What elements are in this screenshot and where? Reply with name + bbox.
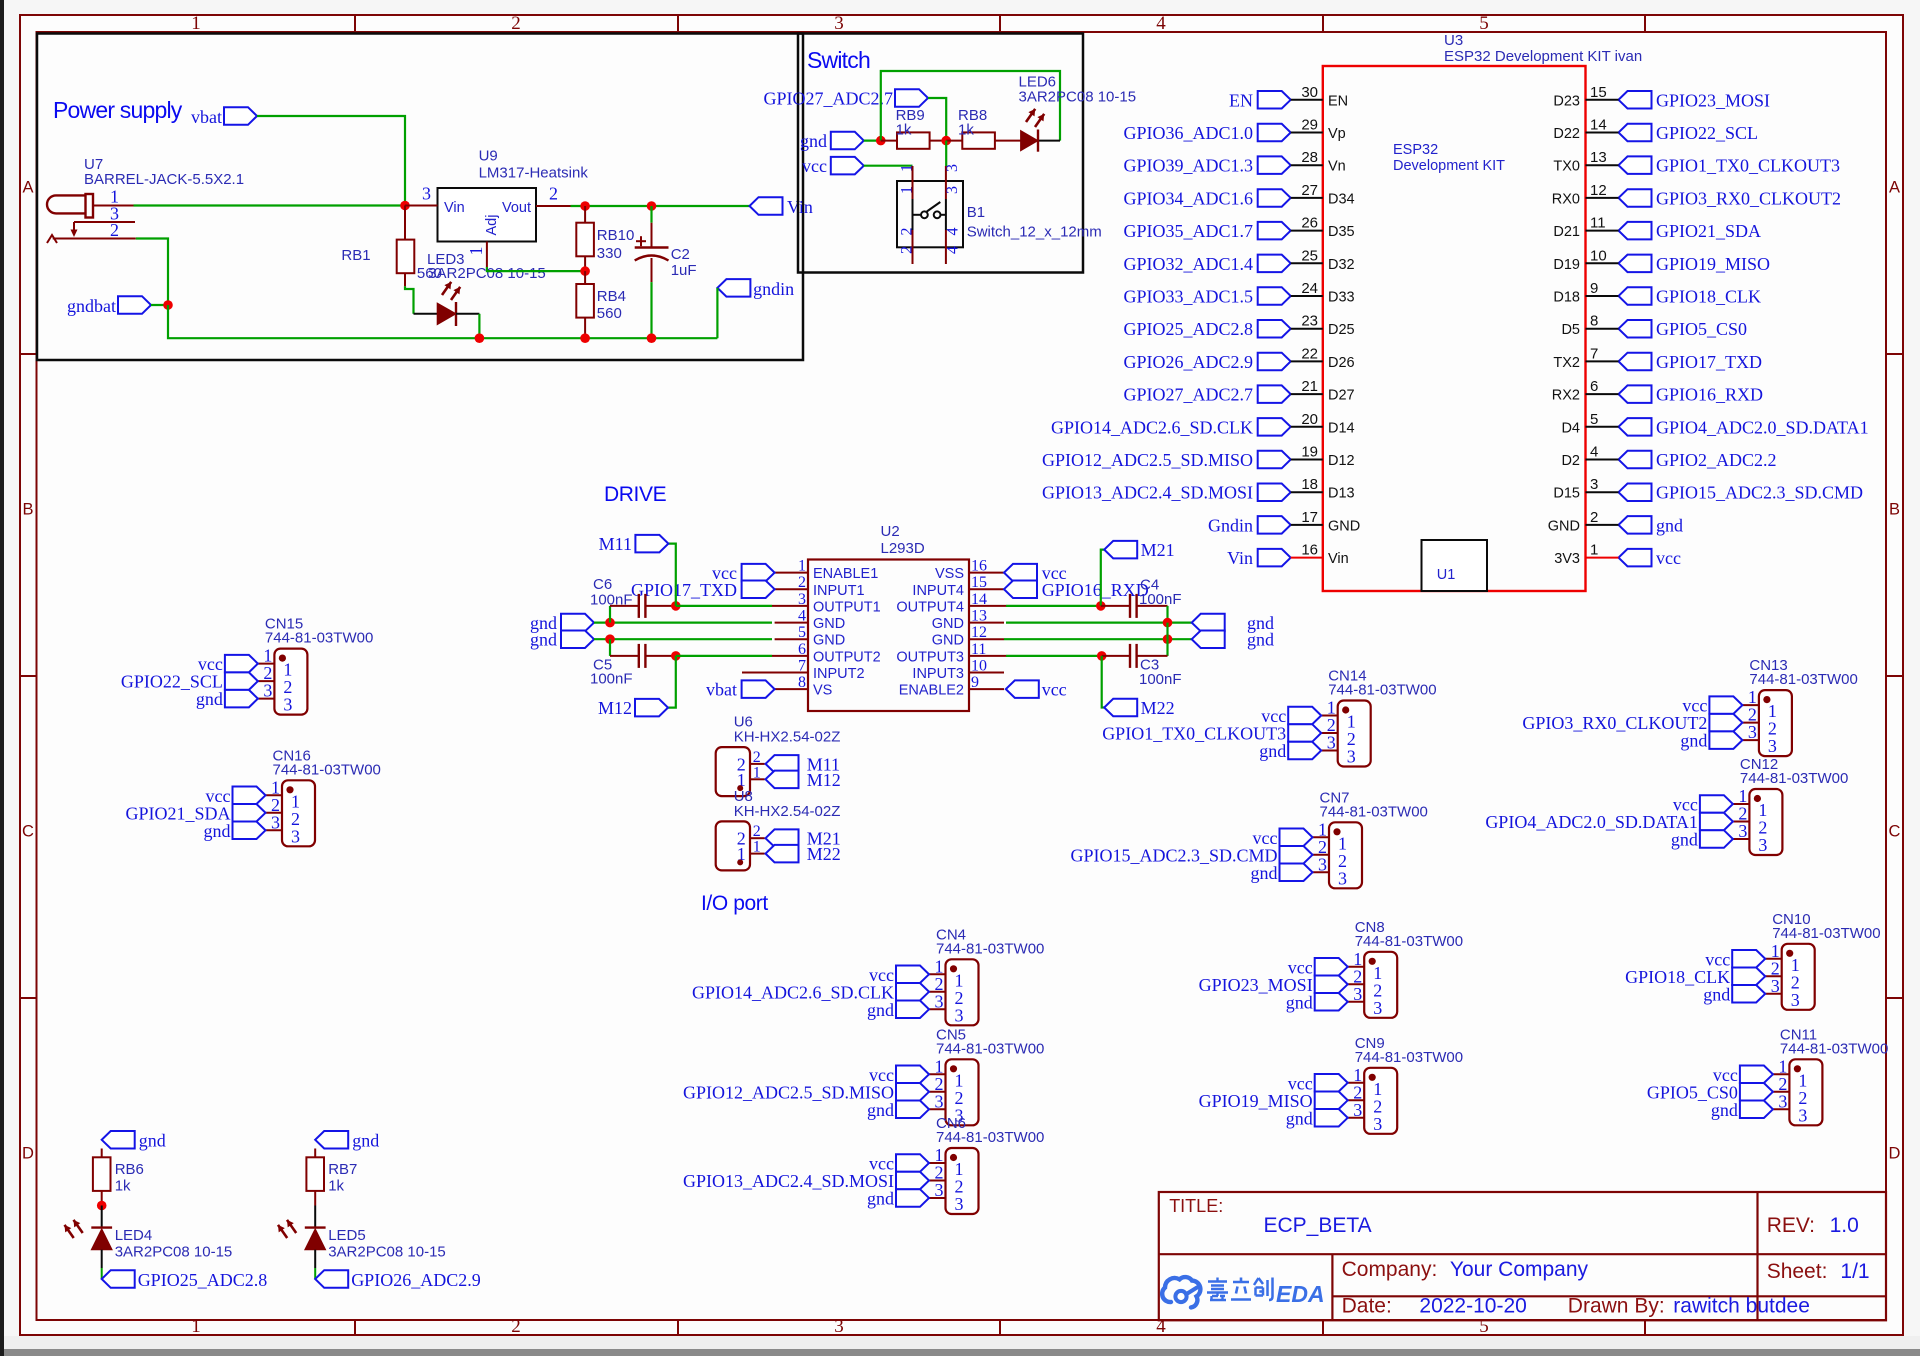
junction OUTPUT3/M22 bbox=[1097, 651, 1107, 661]
svg-text:GPIO4_ADC2.0_SD.DATA1: GPIO4_ADC2.0_SD.DATA1 bbox=[1485, 812, 1698, 832]
svg-text:GPIO15_ADC2.3_SD.CMD: GPIO15_ADC2.3_SD.CMD bbox=[1656, 483, 1863, 503]
net flag gnd (CN5) bbox=[896, 1101, 929, 1119]
svg-text:Switch: Switch bbox=[807, 47, 870, 73]
wire LED4 to flag bbox=[101, 1250, 103, 1268]
wire RB6 to LED4 bbox=[101, 1206, 103, 1228]
svg-text:16: 16 bbox=[1301, 542, 1318, 559]
svg-text:744-81-03TW00: 744-81-03TW00 bbox=[1749, 671, 1857, 688]
svg-text:1: 1 bbox=[1590, 542, 1598, 559]
svg-text:gnd: gnd bbox=[1251, 863, 1278, 883]
svg-text:6: 6 bbox=[1590, 378, 1598, 395]
svg-text:D: D bbox=[1889, 1145, 1901, 1163]
capacitor C5 bbox=[610, 655, 639, 657]
U6 pin 1 bbox=[750, 778, 765, 780]
svg-text:3: 3 bbox=[834, 1316, 844, 1337]
junction C5/M12 bbox=[671, 651, 681, 661]
svg-text:RB6: RB6 bbox=[115, 1161, 144, 1178]
net flag gnd (CN14) bbox=[1288, 742, 1321, 759]
junction RB10/RB4 bbox=[580, 266, 590, 276]
svg-text:D27: D27 bbox=[1328, 388, 1355, 404]
svg-text:3: 3 bbox=[935, 1091, 944, 1111]
U3 pin 30 (EN) left bbox=[1258, 91, 1291, 109]
CN6 pin 1 bbox=[929, 1162, 946, 1164]
svg-text:1: 1 bbox=[466, 247, 486, 256]
net flag GPIO27_ADC2.7 bbox=[895, 89, 928, 107]
U3 pin 6 (RX2) right bbox=[1619, 385, 1652, 403]
junction OUTPUT4/M21 bbox=[1096, 601, 1106, 611]
wire gnd to RB9 bbox=[864, 140, 881, 142]
svg-text:12: 12 bbox=[1590, 182, 1607, 199]
svg-text:TITLE:: TITLE: bbox=[1169, 1196, 1223, 1216]
CN5 pin 2 bbox=[929, 1091, 946, 1093]
svg-text:26: 26 bbox=[1301, 215, 1318, 232]
svg-text:TX2: TX2 bbox=[1553, 355, 1580, 371]
wire jack pin2 to gndbat bbox=[136, 239, 168, 306]
svg-text:I/O port: I/O port bbox=[701, 892, 768, 915]
svg-text:3: 3 bbox=[944, 164, 961, 172]
svg-text:27: 27 bbox=[1301, 182, 1318, 199]
svg-text:A: A bbox=[1889, 179, 1900, 197]
svg-text:3: 3 bbox=[944, 186, 961, 194]
svg-text:D21: D21 bbox=[1553, 224, 1580, 240]
svg-text:744-81-03TW00: 744-81-03TW00 bbox=[1320, 803, 1428, 820]
CN15 pin 3 bbox=[258, 698, 275, 700]
junction C6/M11 bbox=[671, 601, 681, 611]
CN14 pin 1 bbox=[1321, 715, 1338, 717]
svg-text:3: 3 bbox=[1778, 1091, 1787, 1111]
net flag gnd (CN9) bbox=[1315, 1109, 1348, 1127]
svg-text:19: 19 bbox=[1301, 444, 1318, 461]
svg-text:D14: D14 bbox=[1328, 420, 1355, 436]
svg-text:ESP32 Development KIT ivan: ESP32 Development KIT ivan bbox=[1444, 48, 1642, 65]
svg-text:3AR2PC08 10-15: 3AR2PC08 10-15 bbox=[1019, 88, 1137, 105]
svg-text:13: 13 bbox=[1590, 149, 1607, 166]
junction LED3/bus bbox=[475, 333, 485, 343]
wire gnd13 to gnd12 leg bbox=[1166, 623, 1168, 640]
svg-text:Vp: Vp bbox=[1328, 126, 1346, 142]
CN15 pin 2 bbox=[258, 680, 275, 682]
U3 pin 15 (D23) right bbox=[1619, 91, 1652, 109]
junction gnd/RB9 bbox=[876, 136, 886, 146]
svg-text:3AR2PC08 10-15: 3AR2PC08 10-15 bbox=[328, 1244, 446, 1261]
U3 pin 11 (D21) right bbox=[1619, 222, 1652, 240]
svg-text:vbat: vbat bbox=[191, 107, 222, 127]
svg-text:RB1: RB1 bbox=[341, 247, 370, 264]
svg-text:GND: GND bbox=[932, 616, 964, 632]
U2 pin stubs right bbox=[969, 573, 1006, 690]
svg-text:gnd: gnd bbox=[530, 630, 557, 650]
svg-text:ENABLE1: ENABLE1 bbox=[813, 566, 878, 582]
svg-text:18: 18 bbox=[1301, 476, 1318, 493]
svg-text:GPIO5_CS0: GPIO5_CS0 bbox=[1656, 319, 1747, 339]
U3 pin 29 (Vp) left bbox=[1258, 124, 1291, 141]
svg-text:GPIO14_ADC2.6_SD.CLK: GPIO14_ADC2.6_SD.CLK bbox=[692, 982, 894, 1002]
U2 pin names and numbers bbox=[798, 558, 987, 699]
svg-text:7: 7 bbox=[1590, 345, 1598, 362]
net flag M22 bbox=[1104, 699, 1137, 716]
switch B1 bbox=[897, 181, 963, 247]
svg-text:KH-HX2.54-02Z: KH-HX2.54-02Z bbox=[734, 729, 841, 746]
svg-text:28: 28 bbox=[1301, 149, 1318, 166]
frame column ticks top bbox=[355, 15, 1645, 32]
wire GPIO27 to B1 pin3 bbox=[945, 141, 947, 166]
wire RB1 to LED3 bbox=[405, 286, 414, 314]
svg-text:EN: EN bbox=[1229, 90, 1253, 110]
svg-text:GPIO3_RX0_CLKOUT2: GPIO3_RX0_CLKOUT2 bbox=[1656, 188, 1841, 208]
svg-text:2: 2 bbox=[899, 246, 916, 254]
svg-text:gnd: gnd bbox=[1703, 984, 1730, 1004]
svg-text:OUTPUT4: OUTPUT4 bbox=[896, 599, 964, 615]
wire OUTPUT3 bbox=[1006, 655, 1102, 657]
CN4 pin 2 bbox=[929, 991, 946, 993]
svg-text:GPIO25_ADC2.8: GPIO25_ADC2.8 bbox=[1123, 319, 1253, 339]
svg-text:1: 1 bbox=[899, 186, 916, 194]
svg-text:LED4: LED4 bbox=[115, 1227, 153, 1244]
svg-text:GPIO18_CLK: GPIO18_CLK bbox=[1656, 287, 1761, 307]
svg-text:GPIO1_TX0_CLKOUT3: GPIO1_TX0_CLKOUT3 bbox=[1656, 156, 1840, 176]
resistor RB1 bbox=[404, 206, 406, 240]
wire OUTPUT2 bbox=[676, 655, 772, 657]
wire LED5 to flag bbox=[314, 1250, 316, 1268]
net flag vcc (CN9) bbox=[1315, 1074, 1348, 1092]
U8 pin 1 bbox=[750, 853, 765, 855]
svg-text:C6: C6 bbox=[593, 576, 612, 593]
svg-text:vcc: vcc bbox=[802, 156, 827, 176]
svg-text:744-81-03TW00: 744-81-03TW00 bbox=[273, 761, 381, 778]
svg-text:9: 9 bbox=[1590, 280, 1598, 297]
U9 pin 3 bbox=[405, 205, 438, 207]
U3 pin 25 (D32) left bbox=[1258, 255, 1291, 273]
ESP32 module U3 box bbox=[1323, 66, 1586, 591]
net flag gnd (CN4) bbox=[896, 1001, 929, 1019]
net flag vcc (CN5) bbox=[896, 1066, 929, 1084]
svg-text:U3: U3 bbox=[1444, 32, 1463, 49]
junction gnd13 bbox=[1163, 618, 1173, 628]
svg-text:LM317-Heatsink: LM317-Heatsink bbox=[479, 164, 589, 181]
U9 pin 1 (Adj) bbox=[486, 242, 488, 268]
svg-text:gndbat: gndbat bbox=[67, 296, 116, 316]
net flag GPIO22_SCL (CN15) bbox=[225, 672, 258, 690]
resistor RB9 bbox=[897, 132, 930, 148]
wire Vout net bbox=[571, 205, 750, 207]
svg-text:3: 3 bbox=[1798, 1105, 1807, 1125]
net flag GPIO18_CLK (CN10) bbox=[1732, 968, 1765, 986]
wire C4 to gnd bbox=[1166, 606, 1168, 623]
svg-text:D4: D4 bbox=[1561, 420, 1580, 436]
U3 pin 16 (Vin) left bbox=[1258, 549, 1291, 567]
U7 pin 3 bbox=[74, 221, 135, 223]
svg-text:Gndin: Gndin bbox=[1208, 515, 1253, 535]
svg-text:744-81-03TW00: 744-81-03TW00 bbox=[1328, 682, 1436, 699]
svg-text:GND: GND bbox=[813, 633, 845, 649]
svg-text:GPIO22_SCL: GPIO22_SCL bbox=[1656, 123, 1758, 143]
U3 pin 21 (D27) left bbox=[1258, 385, 1291, 403]
svg-text:25: 25 bbox=[1301, 247, 1318, 264]
svg-text:INPUT2: INPUT2 bbox=[813, 666, 865, 682]
resistor RB10 bbox=[584, 206, 586, 223]
svg-text:D22: D22 bbox=[1553, 126, 1580, 142]
svg-text:100nF: 100nF bbox=[1139, 671, 1182, 688]
wire GND pin13 bbox=[1006, 621, 1192, 623]
svg-text:1uF: 1uF bbox=[671, 262, 697, 279]
U3 pin 22 (D26) left bbox=[1258, 353, 1291, 371]
wire vbat net bbox=[257, 116, 405, 206]
driver U2 L293D box bbox=[808, 560, 969, 712]
svg-text:Vin: Vin bbox=[787, 197, 813, 217]
net flag vcc (CN11) bbox=[1740, 1066, 1773, 1084]
svg-text:GPIO4_ADC2.0_SD.DATA1: GPIO4_ADC2.0_SD.DATA1 bbox=[1656, 417, 1869, 437]
wire C5 left leg bbox=[609, 639, 611, 656]
net flag M11 bbox=[766, 755, 799, 773]
svg-text:1k: 1k bbox=[328, 1178, 344, 1195]
net flag gnd (U2 pin13) bbox=[1192, 614, 1225, 632]
EasyEDA logo bbox=[1162, 1277, 1324, 1307]
CN13 pin 1 bbox=[1742, 704, 1759, 706]
svg-text:D26: D26 bbox=[1328, 355, 1355, 371]
svg-text:3: 3 bbox=[1327, 733, 1336, 753]
svg-text:3: 3 bbox=[291, 826, 300, 846]
U3 pin 12 (RX0) right bbox=[1619, 189, 1652, 207]
svg-text:1: 1 bbox=[191, 13, 201, 34]
svg-text:GPIO13_ADC2.4_SD.MOSI: GPIO13_ADC2.4_SD.MOSI bbox=[1042, 483, 1253, 503]
net flag gnd (CN6) bbox=[896, 1189, 929, 1207]
svg-text:3: 3 bbox=[1791, 990, 1800, 1010]
svg-text:A: A bbox=[22, 179, 33, 197]
svg-text:23: 23 bbox=[1301, 313, 1318, 330]
svg-text:gnd: gnd bbox=[204, 821, 231, 841]
U7 pin 2 bbox=[53, 238, 136, 240]
net flag gnd (CN13) bbox=[1709, 731, 1742, 749]
CN7 pin 3 bbox=[1313, 871, 1330, 873]
LED6 bbox=[1021, 131, 1038, 151]
net flag M12 bbox=[766, 771, 799, 789]
svg-text:OUTPUT2: OUTPUT2 bbox=[813, 649, 881, 665]
svg-text:M11: M11 bbox=[599, 534, 632, 554]
svg-text:3: 3 bbox=[422, 184, 431, 204]
junction gnd/C5 bbox=[605, 634, 615, 644]
junction RB6/LED4 bbox=[97, 1201, 107, 1211]
Switch section box bbox=[798, 34, 1083, 273]
svg-text:3: 3 bbox=[1748, 722, 1757, 742]
svg-text:3AR2PC08 10-15: 3AR2PC08 10-15 bbox=[115, 1244, 233, 1261]
svg-text:gnd: gnd bbox=[1680, 731, 1707, 751]
svg-text:INPUT3: INPUT3 bbox=[912, 666, 964, 682]
net flag GPIO12_ADC2.5_SD.MISO (CN5) bbox=[896, 1083, 929, 1101]
svg-text:1/1: 1/1 bbox=[1840, 1260, 1869, 1283]
svg-text:DRIVE: DRIVE bbox=[604, 483, 667, 506]
U3 pin 9 (D18) right bbox=[1619, 287, 1652, 305]
svg-text:3: 3 bbox=[1353, 984, 1362, 1004]
svg-text:D35: D35 bbox=[1328, 224, 1355, 240]
CN5 pin 1 bbox=[929, 1073, 946, 1075]
svg-text:B: B bbox=[22, 501, 33, 519]
net flag vcc (U2 pin16) bbox=[1004, 564, 1037, 582]
svg-text:gnd: gnd bbox=[867, 1000, 894, 1020]
capacitor C6 bbox=[610, 605, 639, 607]
svg-text:INPUT4: INPUT4 bbox=[912, 583, 964, 599]
svg-text:744-81-03TW00: 744-81-03TW00 bbox=[1772, 925, 1880, 942]
U9 pin 2 bbox=[536, 205, 571, 207]
net flag GPIO21_SDA (CN16) bbox=[233, 804, 266, 822]
svg-text:vcc: vcc bbox=[1042, 680, 1067, 700]
CN4 pin 3 bbox=[929, 1008, 946, 1010]
svg-text:3: 3 bbox=[935, 1180, 944, 1200]
net flag GPIO23_MOSI (CN8) bbox=[1315, 976, 1348, 994]
net flag vcc (CN10) bbox=[1732, 950, 1765, 968]
CN16 pin 3 bbox=[266, 829, 283, 831]
wire M12 bbox=[668, 656, 676, 708]
svg-text:GPIO34_ADC1.6: GPIO34_ADC1.6 bbox=[1123, 188, 1253, 208]
svg-text:2: 2 bbox=[1590, 509, 1598, 526]
wire gndbat stub bbox=[151, 304, 168, 306]
net flag GPIO14_ADC2.6_SD.CLK (CN4) bbox=[896, 983, 929, 1001]
svg-text:GPIO39_ADC1.3: GPIO39_ADC1.3 bbox=[1123, 156, 1253, 176]
U3 pin 20 (D14) left bbox=[1258, 418, 1291, 436]
net flag M12 bbox=[635, 699, 668, 717]
svg-text:1k: 1k bbox=[115, 1178, 131, 1195]
frame column ticks bottom bbox=[355, 1320, 1645, 1334]
frame row letters left bbox=[22, 179, 34, 1163]
svg-text:OUTPUT1: OUTPUT1 bbox=[813, 599, 881, 615]
junction RB9/RB8 bbox=[941, 136, 951, 146]
svg-text:3: 3 bbox=[263, 681, 272, 701]
svg-text:C: C bbox=[1889, 823, 1901, 841]
wire gnd pin4 bbox=[594, 621, 772, 623]
svg-text:3: 3 bbox=[1758, 835, 1767, 855]
svg-text:M12: M12 bbox=[598, 698, 632, 718]
junction C2/bus bbox=[647, 333, 657, 343]
junction RB4/bus bbox=[580, 333, 590, 343]
svg-text:4: 4 bbox=[1590, 444, 1598, 461]
wire Adj net bbox=[487, 267, 585, 271]
wire gndin to bus bbox=[716, 288, 718, 338]
net flag gnd (U2 pin4) bbox=[561, 614, 594, 632]
net flag vcc (CN8) bbox=[1315, 958, 1348, 976]
svg-text:1: 1 bbox=[753, 764, 761, 781]
svg-text:GPIO36_ADC1.0: GPIO36_ADC1.0 bbox=[1123, 123, 1253, 143]
CN14 pin 2 bbox=[1321, 732, 1338, 734]
svg-text:1: 1 bbox=[191, 1316, 201, 1337]
U3 pin 27 (D34) left bbox=[1258, 189, 1291, 207]
svg-text:15: 15 bbox=[1590, 84, 1607, 101]
svg-text:GPIO23_MOSI: GPIO23_MOSI bbox=[1656, 90, 1770, 110]
U3 pin 5 (D4) right bbox=[1619, 418, 1652, 436]
svg-text:GPIO16_RXD: GPIO16_RXD bbox=[1042, 580, 1149, 600]
svg-text:gnd: gnd bbox=[1656, 515, 1683, 535]
svg-text:17: 17 bbox=[1301, 509, 1318, 526]
capacitor C3 bbox=[1102, 655, 1130, 657]
net flag vcc (CN4) bbox=[896, 966, 929, 984]
svg-text:GPIO32_ADC1.4: GPIO32_ADC1.4 bbox=[1123, 254, 1253, 274]
svg-text:3: 3 bbox=[1738, 821, 1747, 841]
svg-text:RB10: RB10 bbox=[597, 227, 635, 244]
svg-text:4: 4 bbox=[1156, 13, 1166, 34]
svg-text:10: 10 bbox=[1590, 247, 1607, 264]
net flag gnd (U2 pin12) bbox=[1192, 631, 1225, 649]
svg-text:EN: EN bbox=[1328, 93, 1348, 109]
U3 pin 23 (D25) left bbox=[1258, 320, 1291, 338]
svg-text:D19: D19 bbox=[1553, 257, 1580, 273]
wire OUTPUT4 bbox=[1006, 605, 1101, 607]
U8 pin 2 bbox=[750, 837, 765, 839]
net flag GPIO13_ADC2.4_SD.MOSI (CN6) bbox=[896, 1172, 929, 1189]
resistor RB4 bbox=[584, 271, 586, 284]
net flag M21 bbox=[1104, 541, 1137, 559]
frame column numbers top bbox=[191, 13, 1489, 34]
svg-text:Vn: Vn bbox=[1328, 159, 1346, 175]
net flag gnd (switch) bbox=[831, 132, 864, 150]
wire vcc to B1 pin1 bbox=[864, 165, 913, 167]
wire C2 to bus bbox=[650, 282, 652, 338]
svg-text:3: 3 bbox=[935, 991, 944, 1011]
net flag vcc (CN15) bbox=[225, 655, 258, 673]
svg-text:gnd: gnd bbox=[1711, 1100, 1738, 1120]
svg-text:VS: VS bbox=[813, 683, 832, 699]
CN8 pin 3 bbox=[1348, 1001, 1365, 1003]
U3 pin 17 (GND) left bbox=[1258, 516, 1291, 534]
svg-text:330: 330 bbox=[597, 245, 622, 262]
net flag vcc (CN14) bbox=[1288, 707, 1321, 724]
svg-text:3: 3 bbox=[955, 1005, 964, 1025]
svg-text:U1: U1 bbox=[1437, 567, 1456, 583]
svg-text:2: 2 bbox=[511, 13, 521, 34]
svg-text:8: 8 bbox=[1590, 313, 1598, 330]
svg-text:GPIO17_TXD: GPIO17_TXD bbox=[1656, 352, 1762, 372]
svg-text:5: 5 bbox=[1479, 1316, 1489, 1337]
svg-text:2: 2 bbox=[511, 1316, 521, 1337]
svg-text:1.0: 1.0 bbox=[1830, 1214, 1859, 1237]
junction gnd/C6 bbox=[605, 618, 615, 628]
wire switch top rail bbox=[881, 71, 1060, 141]
net flag GPIO5_CS0 (CN11) bbox=[1740, 1083, 1773, 1101]
CN14 pin 3 bbox=[1321, 750, 1338, 752]
U3 pin 4 (D2) right bbox=[1619, 451, 1652, 469]
U3 pin 7 (TX2) right bbox=[1619, 353, 1652, 371]
net flag vcc (CN16) bbox=[233, 787, 266, 805]
svg-text:3: 3 bbox=[1768, 736, 1777, 756]
svg-text:vcc: vcc bbox=[1656, 548, 1681, 568]
svg-text:3: 3 bbox=[1590, 476, 1598, 493]
U7 pin 1 bbox=[93, 205, 134, 207]
CN4 pin 1 bbox=[929, 973, 946, 975]
svg-text:GPIO2_ADC2.2: GPIO2_ADC2.2 bbox=[1656, 450, 1777, 470]
svg-text:GPIO16_RXD: GPIO16_RXD bbox=[1656, 385, 1763, 405]
svg-text:744-81-03TW00: 744-81-03TW00 bbox=[936, 1129, 1044, 1146]
svg-text:1: 1 bbox=[753, 839, 761, 856]
svg-text:GPIO12_ADC2.5_SD.MISO: GPIO12_ADC2.5_SD.MISO bbox=[683, 1082, 894, 1102]
wire C3 to gnd leg bbox=[1166, 639, 1168, 656]
svg-text:3: 3 bbox=[1318, 854, 1327, 874]
junction Vout/RB10 bbox=[580, 201, 590, 211]
svg-text:Company:: Company: bbox=[1342, 1258, 1438, 1281]
CN8 pin 2 bbox=[1348, 983, 1365, 985]
svg-text:Development KIT: Development KIT bbox=[1393, 158, 1505, 174]
svg-text:GND: GND bbox=[1328, 518, 1360, 534]
junction gndbat bbox=[163, 300, 173, 310]
net flag vbat (U2 pin8) bbox=[742, 680, 775, 698]
svg-text:GND: GND bbox=[813, 616, 845, 632]
CN9 pin 1 bbox=[1348, 1082, 1365, 1084]
svg-text:M21: M21 bbox=[1141, 540, 1175, 560]
svg-text:GPIO21_SDA: GPIO21_SDA bbox=[1656, 221, 1761, 241]
svg-text:2: 2 bbox=[110, 220, 119, 240]
svg-text:Switch_12_x_12mm: Switch_12_x_12mm bbox=[967, 223, 1102, 240]
resistor RB8 bbox=[962, 132, 995, 148]
svg-text:1k: 1k bbox=[896, 122, 912, 139]
svg-text:1k: 1k bbox=[958, 122, 974, 139]
svg-text:RB4: RB4 bbox=[597, 288, 626, 305]
CN8 pin 1 bbox=[1348, 966, 1365, 968]
